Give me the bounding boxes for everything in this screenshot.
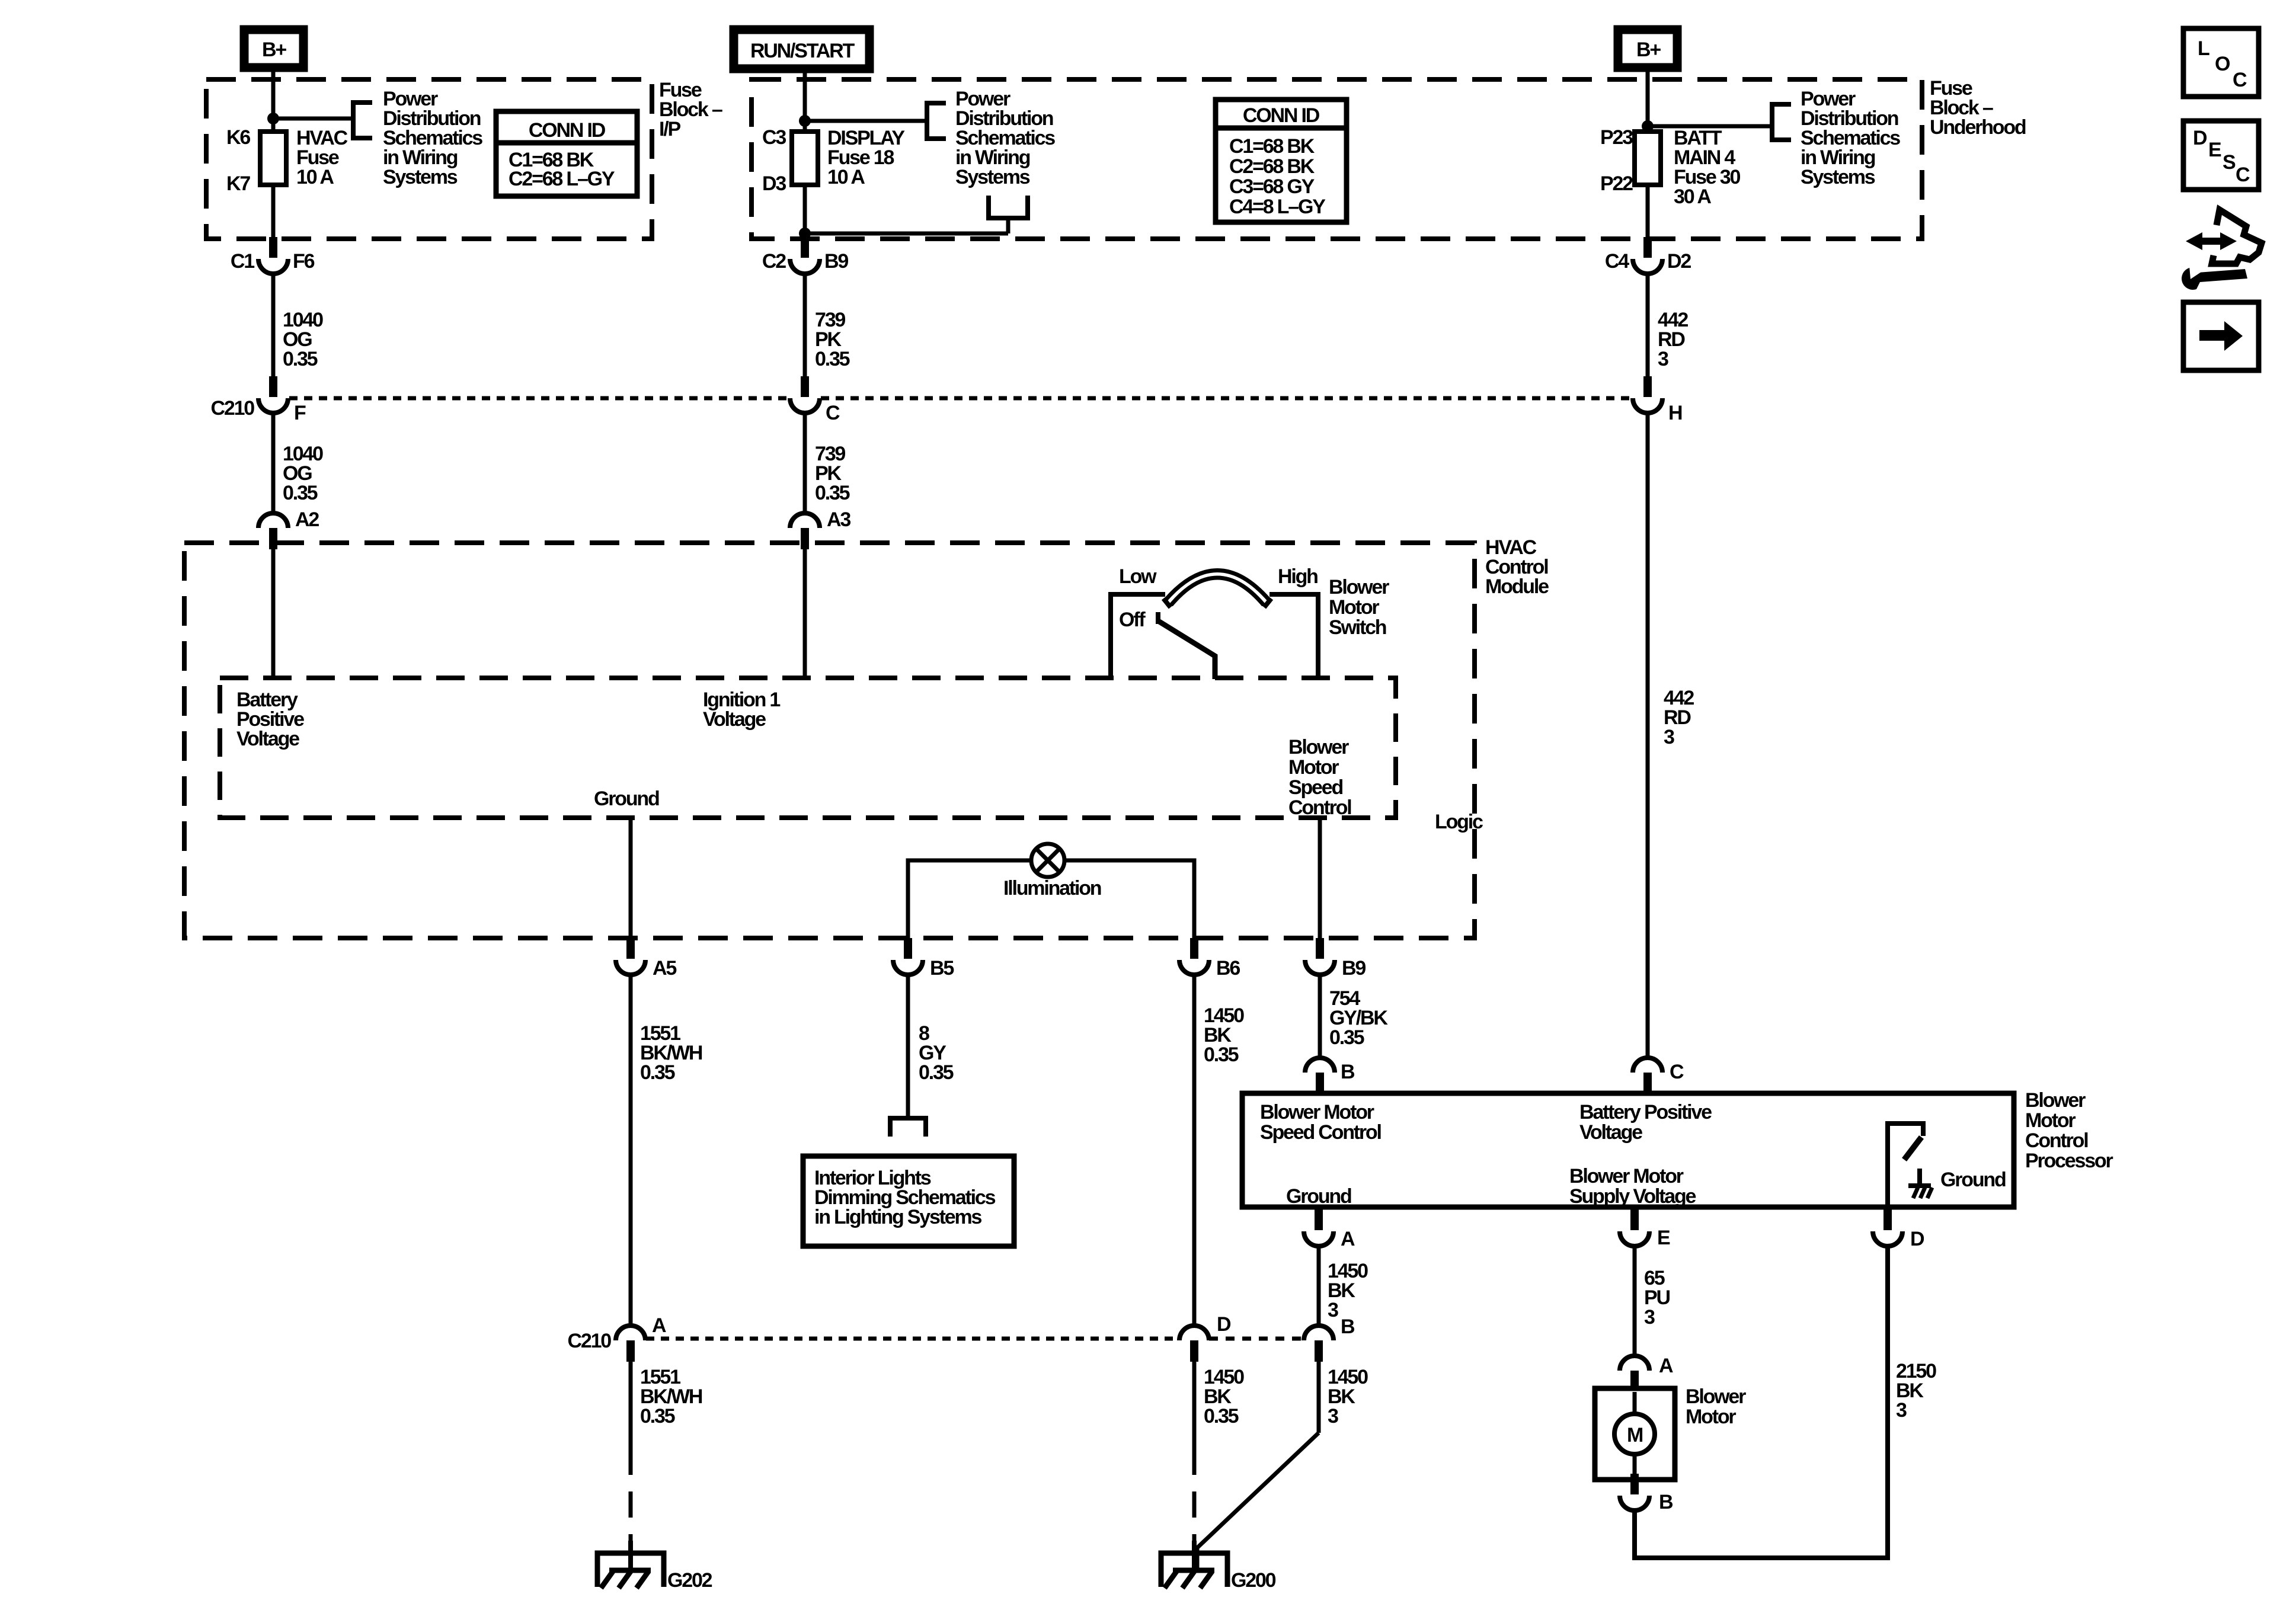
wire inside blower motor: [1633, 1392, 1637, 1416]
CONN ID table (center): [1216, 100, 1347, 222]
connector C into processor: [1633, 1058, 1662, 1073]
processor internal ground symbol: [1917, 1169, 1922, 1186]
diagonal wire to G200: [1197, 1433, 1319, 1569]
svg-text:C: C: [826, 402, 840, 424]
icon box forward arrow: [2183, 302, 2259, 370]
svg-text:Systems: Systems: [383, 166, 458, 188]
svg-text:Systems: Systems: [1801, 166, 1875, 188]
svg-text:B: B: [1659, 1491, 1673, 1513]
svg-text:Blower: Blower: [1686, 1385, 1746, 1408]
svg-text:E: E: [2208, 139, 2221, 161]
svg-text:D2: D2: [1667, 250, 1691, 273]
interior lights bracket: [890, 1118, 926, 1137]
wire branch to ref bracket col2: [805, 119, 927, 123]
wire 65 PU 3: [1633, 1246, 1637, 1356]
connector C210/F: [269, 376, 277, 397]
junction node col1: [267, 113, 279, 124]
svg-text:3: 3: [1328, 1299, 1338, 1321]
svg-text:High: High: [1278, 565, 1318, 588]
svg-text:Underhood: Underhood: [1930, 116, 2026, 139]
connector H (C210): [1643, 376, 1652, 397]
switch speed arc: [1165, 571, 1269, 601]
wire 754 GY/BK: [1318, 975, 1322, 1058]
svg-text:B6: B6: [1216, 957, 1240, 980]
connector A3 into HVAC control module: [790, 513, 820, 528]
svg-text:D3: D3: [762, 172, 786, 195]
svg-text:Module: Module: [1485, 575, 1549, 598]
bottom reference bracket under Systems: [989, 196, 1028, 218]
svg-text:Off: Off: [1119, 609, 1146, 631]
svg-text:Battery Positive: Battery Positive: [1579, 1101, 1712, 1124]
wire B9 from logic box: [1318, 818, 1322, 938]
svg-text:C1=68 BK: C1=68 BK: [1229, 135, 1315, 158]
wire 1450 BK 3 from A: [1317, 1246, 1321, 1326]
wire 1450 BK upper: [1192, 975, 1197, 1326]
svg-text:S: S: [2223, 151, 2236, 174]
switch wiper contact tick: [1156, 612, 1160, 624]
fuse block I/P dashed box (left): [206, 79, 652, 239]
connector B into processor: [1305, 1058, 1335, 1073]
svg-text:C4=8 L–GY: C4=8 L–GY: [1229, 196, 1326, 218]
svg-text:A3: A3: [827, 508, 850, 531]
svg-text:Motor: Motor: [1288, 756, 1339, 779]
logic dashed box: [220, 678, 1396, 818]
svg-text:B: B: [1341, 1061, 1355, 1083]
wire branch to ref bracket col3: [1648, 124, 1772, 129]
svg-text:B+: B+: [262, 39, 286, 61]
svg-text:D: D: [1217, 1313, 1231, 1336]
svg-text:Systems: Systems: [955, 166, 1030, 188]
svg-text:Blower: Blower: [1329, 576, 1389, 598]
svg-text:Ground: Ground: [1286, 1185, 1351, 1208]
wire from B+ to HVAC fuse: [271, 70, 276, 132]
svg-text:C: C: [1670, 1061, 1684, 1083]
connector C (C210): [801, 376, 809, 397]
svg-text:C2: C2: [762, 250, 786, 273]
svg-text:C3: C3: [762, 126, 786, 149]
svg-text:A2: A2: [295, 508, 319, 531]
wire 442 RD segment 2 (long): [1646, 413, 1650, 1058]
svg-text:Processor: Processor: [2025, 1150, 2113, 1172]
svg-text:Blower Motor: Blower Motor: [1569, 1165, 1684, 1188]
icon box LOC: [2183, 28, 2259, 97]
blower motor M circle: [1614, 1414, 1655, 1454]
svg-text:0.35: 0.35: [919, 1061, 954, 1084]
svg-text:Motor: Motor: [1329, 596, 1379, 619]
svg-text:Switch: Switch: [1329, 616, 1386, 639]
svg-text:0.35: 0.35: [815, 482, 850, 504]
wire return bottom: [1635, 1246, 1888, 1558]
svg-text:0.35: 0.35: [1204, 1044, 1239, 1066]
svg-text:L: L: [2198, 37, 2209, 60]
wire 1551 BK/WH lower: [629, 1362, 633, 1449]
svg-text:B9: B9: [1342, 957, 1366, 980]
svg-text:Control: Control: [1288, 796, 1351, 819]
svg-text:P23: P23: [1600, 126, 1633, 149]
wire 739 PK segment 2: [803, 413, 807, 513]
junction node col3: [1642, 120, 1654, 132]
svg-text:3: 3: [1658, 348, 1668, 370]
connector E out of processor: [1630, 1209, 1639, 1230]
icon wiring arrow and wrench: [2212, 210, 2262, 264]
CONN ID table (fuse block I/P): [496, 111, 637, 196]
svg-text:Voltage: Voltage: [703, 708, 766, 731]
svg-text:Speed: Speed: [1288, 776, 1342, 799]
svg-text:Blower Motor: Blower Motor: [1260, 1101, 1374, 1124]
connector B5: [904, 938, 912, 959]
svg-text:B9: B9: [824, 250, 848, 273]
fuse block dashed box (center+right): [752, 79, 1922, 239]
junction node col2 top: [799, 115, 811, 127]
svg-text:RUN/START: RUN/START: [750, 40, 855, 62]
svg-text:Motor: Motor: [2025, 1109, 2076, 1132]
svg-text:Ground: Ground: [1940, 1169, 2006, 1191]
svg-text:C210: C210: [568, 1330, 612, 1352]
ground G200: [1161, 1553, 1227, 1587]
svg-text:D: D: [2193, 127, 2207, 149]
C210 dotted pass-through line: [289, 396, 789, 401]
connector C2/B9: [801, 237, 809, 258]
svg-text:C3=68 GY: C3=68 GY: [1229, 175, 1315, 198]
wire M to box bottom: [1633, 1453, 1637, 1480]
svg-text:M: M: [1627, 1424, 1643, 1446]
wire fuse2 to connector C2: [803, 185, 807, 239]
svg-text:D: D: [1910, 1228, 1924, 1250]
connector B out of blower motor: [1630, 1474, 1639, 1494]
svg-text:30 A: 30 A: [1674, 185, 1711, 208]
svg-text:0.35: 0.35: [1204, 1405, 1239, 1427]
svg-text:K7: K7: [226, 172, 250, 195]
reference bracket col2: [927, 103, 946, 139]
wire 1551 BK/WH upper: [629, 975, 633, 1326]
interior lights reference box: [803, 1156, 1014, 1246]
connector D out of processor: [1884, 1209, 1892, 1230]
svg-text:3: 3: [1644, 1306, 1655, 1329]
svg-text:F: F: [294, 402, 306, 424]
svg-text:0.35: 0.35: [1329, 1026, 1364, 1049]
svg-text:Motor: Motor: [1686, 1406, 1736, 1428]
connector A2 into HVAC control module: [258, 513, 288, 528]
wire branch to power distribution ref (col1): [273, 117, 353, 121]
stem to bottom bracket: [1006, 218, 1011, 233]
svg-text:3: 3: [1328, 1405, 1338, 1427]
svg-text:B+: B+: [1636, 39, 1661, 61]
svg-text:Supply Voltage: Supply Voltage: [1569, 1185, 1696, 1208]
svg-text:F6: F6: [293, 250, 315, 273]
connector B6: [1190, 938, 1198, 959]
blower motor control processor box: [1242, 1093, 2014, 1207]
wire 739 PK segment 1: [803, 274, 807, 377]
icon box DESC: [2183, 121, 2259, 190]
svg-text:I/P: I/P: [659, 118, 680, 140]
power symbol RUN/START: [734, 30, 869, 69]
connector B9 (module): [1316, 938, 1324, 959]
svg-text:A: A: [1659, 1355, 1673, 1377]
wire 1040 OG segment 1: [271, 274, 276, 377]
connector D (C210 line): [1179, 1326, 1209, 1340]
illumination feed wire right: [1064, 860, 1194, 938]
connector A into blower motor: [1620, 1356, 1649, 1371]
wire 1450 BK lower (solid): [1192, 1362, 1197, 1449]
C210 dotted line bottom: [646, 1337, 1179, 1341]
svg-text:3: 3: [1664, 726, 1674, 748]
svg-text:0.35: 0.35: [283, 482, 318, 504]
svg-text:CONN ID: CONN ID: [1243, 104, 1320, 127]
blower motor switch box: [1111, 594, 1165, 679]
wire branch below fuse2: [805, 232, 1008, 236]
svg-text:0.35: 0.35: [640, 1405, 675, 1427]
connector B (C210 line): [1304, 1326, 1334, 1340]
wire B+ right to fuse: [1646, 70, 1650, 132]
dashed wire to G200: [1192, 1449, 1197, 1549]
HVAC control module dashed box: [184, 543, 1475, 938]
connector A5: [626, 938, 635, 959]
svg-text:G200: G200: [1231, 1569, 1276, 1592]
svg-text:C4: C4: [1605, 250, 1629, 273]
svg-text:C: C: [2233, 69, 2247, 91]
wire 8 GY: [906, 975, 910, 1116]
svg-text:Voltage: Voltage: [1579, 1121, 1642, 1144]
svg-text:E: E: [1657, 1227, 1670, 1249]
svg-text:H: H: [1668, 402, 1682, 424]
svg-text:Logic: Logic: [1435, 811, 1483, 833]
connector C4/D2: [1643, 237, 1652, 258]
svg-text:K6: K6: [226, 126, 250, 149]
wire fuse3 to connector C4: [1646, 185, 1650, 239]
fuse F3 BATT MAIN 4 Fuse 30: [1635, 132, 1661, 185]
svg-text:G202: G202: [667, 1569, 712, 1592]
svg-text:C2=68 BK: C2=68 BK: [1229, 155, 1315, 178]
svg-text:10 A: 10 A: [827, 166, 865, 188]
svg-text:Ground: Ground: [594, 788, 659, 810]
illumination lamp: [1031, 844, 1064, 877]
processor internal switch: [1888, 1124, 1923, 1207]
wire fuse1 to connector C1: [271, 185, 276, 239]
wire A2 to logic box: [271, 549, 276, 678]
wire 1040 OG segment 2: [271, 413, 276, 513]
fuse F1 HVAC Fuse 10A: [260, 132, 286, 185]
power symbol B+ (left): [244, 30, 303, 68]
power symbol B+ (right): [1618, 30, 1677, 68]
dashed wire to G202: [629, 1449, 633, 1542]
svg-text:A: A: [1341, 1228, 1355, 1250]
svg-text:Speed Control: Speed Control: [1260, 1121, 1381, 1144]
reference bracket col3: [1772, 104, 1791, 140]
svg-text:A: A: [652, 1314, 666, 1337]
illumination feed wire left: [908, 860, 1031, 938]
svg-text:A5: A5: [653, 957, 676, 980]
svg-text:Blower: Blower: [2025, 1089, 2086, 1112]
wire A3 to logic box: [803, 549, 807, 678]
svg-text:10 A: 10 A: [296, 166, 334, 188]
ground G202: [597, 1553, 664, 1587]
svg-text:B: B: [1341, 1315, 1355, 1338]
svg-text:Control: Control: [2025, 1129, 2088, 1152]
switch wiper: [1159, 622, 1215, 679]
fuse F2 DISPLAY Fuse 18: [792, 132, 818, 185]
svg-text:C210: C210: [211, 397, 255, 420]
svg-text:0.35: 0.35: [640, 1061, 675, 1084]
blower motor box: [1595, 1388, 1675, 1480]
reference bracket col1: [353, 103, 372, 138]
svg-text:0.35: 0.35: [283, 348, 318, 370]
junction node col2 bottom: [799, 228, 811, 239]
svg-text:0.35: 0.35: [815, 348, 850, 370]
svg-text:3: 3: [1896, 1399, 1907, 1422]
svg-text:C1: C1: [231, 250, 254, 273]
wire 1450 BK 3 below B: [1317, 1362, 1321, 1433]
wire RUN/START to fuse: [803, 72, 807, 132]
svg-text:P22: P22: [1600, 172, 1633, 195]
connector C210 A: [616, 1326, 645, 1340]
connector C1/F6: [269, 237, 277, 258]
svg-text:C2=68 L–GY: C2=68 L–GY: [509, 168, 615, 190]
svg-text:Blower: Blower: [1288, 736, 1349, 758]
wire 442 RD segment 1: [1646, 274, 1650, 377]
wire ground-to-A5 inside module: [629, 817, 633, 938]
svg-text:Voltage: Voltage: [236, 728, 299, 750]
svg-text:in Lighting Systems: in Lighting Systems: [814, 1206, 982, 1228]
svg-text:CONN ID: CONN ID: [529, 119, 606, 142]
svg-text:Illumination: Illumination: [1003, 877, 1101, 900]
svg-text:Low: Low: [1119, 565, 1157, 588]
connector A out of processor: [1315, 1209, 1323, 1230]
svg-text:C: C: [2236, 164, 2250, 186]
svg-text:O: O: [2215, 53, 2230, 75]
svg-text:B5: B5: [930, 957, 954, 980]
